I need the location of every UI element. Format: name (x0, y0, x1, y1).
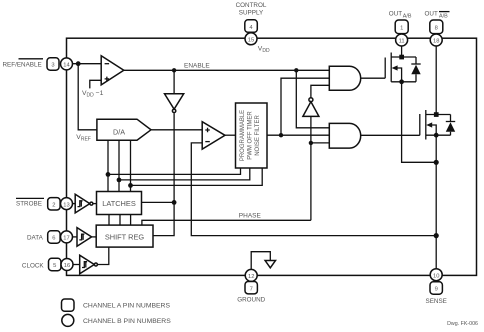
wire: D/A bit line 1 (107, 140, 109, 191)
pin 1 (square) OUT A/B (395, 20, 408, 34)
wire: PHASE inverter output up to AND A input (311, 85, 329, 97)
svg-text:SENSE: SENSE (426, 298, 447, 305)
svg-text:14: 14 (63, 63, 70, 69)
pin 8 (square) OUT A/B-bar (430, 20, 443, 34)
label CLOCK (22, 262, 44, 269)
block: LATCHES (97, 192, 142, 215)
wire: D/A output to comparator plus (151, 129, 202, 131)
svg-text:2: 2 (52, 203, 55, 209)
wire: ENABLE line from comparator to AND gate A (124, 69, 329, 71)
pin 9 (square) SENSE (430, 282, 442, 294)
node: junction PWM out to AND A (279, 133, 283, 137)
node: bus tap 3 (128, 183, 133, 188)
label CONTROL SUPPLY (236, 2, 267, 17)
op-amp U1 enable comparator (101, 56, 124, 85)
node: junction sense line (434, 233, 439, 238)
svg-text:1: 1 (400, 26, 403, 32)
pin 13 (round) STROBE (61, 198, 73, 210)
label VDD (258, 46, 270, 55)
svg-text:CHANNEL B PIN NUMBERS: CHANNEL B PIN NUMBERS (83, 318, 171, 325)
label OUT A/B-bar (425, 11, 450, 20)
svg-text:SHIFT REG: SHIFT REG (105, 233, 145, 242)
pin 11 (round) OUT A/B (396, 34, 408, 46)
wire: pin 18 down to Q2 drain (435, 46, 437, 114)
wire: bus line 3 to PWM block (131, 168, 263, 185)
svg-text:CLOCK: CLOCK (22, 262, 44, 269)
svg-text:11: 11 (399, 39, 405, 45)
node: junction PHASE to AND B input (309, 141, 313, 145)
diode D1 body diode of Q1 (411, 57, 420, 82)
pin 18 (round) OUT A/B-bar (430, 34, 442, 46)
transistor Q1 high-side DMOS for OUT A/B (385, 53, 416, 85)
svg-text:8: 8 (435, 26, 438, 32)
wire: PHASE to AND B lower input (311, 142, 329, 144)
svg-text:LATCHES: LATCHES (102, 199, 136, 208)
pin 17 (round) DATA (61, 231, 73, 243)
svg-text:PHASE: PHASE (239, 212, 262, 219)
legend: channel B pin marker (62, 314, 74, 326)
wire: PWM branch up to AND A middle input (281, 78, 329, 135)
svg-text:GROUND: GROUND (237, 296, 265, 303)
pin 3 (square, channel A) REF/ENABLE (47, 58, 59, 70)
svg-text:15: 15 (248, 38, 254, 44)
wire: pin 14 to comparator minus input (73, 63, 101, 65)
pin 15 (round) control supply (245, 33, 257, 45)
AND gate A (upper) (329, 66, 360, 90)
schmitt buffer clock (73, 247, 109, 274)
svg-text:CONTROL: CONTROL (236, 2, 267, 9)
wire: pin 11 down to Q1 drain (401, 46, 403, 57)
wire: ENABLE branch down to AND B input (296, 70, 329, 128)
wire: bus line 1 to PWM block (108, 168, 241, 174)
pin 3/14 REF/ENABLE label (3, 59, 44, 69)
wire: Q2 source down to sense pin (435, 135, 437, 268)
pin 12 (round) GROUND (245, 269, 257, 281)
pin 5 (square) CLOCK (49, 258, 61, 270)
pin 10 (round) SENSE (430, 269, 442, 281)
pin 6 (square) DATA (48, 231, 60, 243)
svg-text:13: 13 (63, 202, 69, 208)
pin 14 (round, channel B) REF/ENABLE (61, 58, 73, 70)
AND gate B (lower) (329, 123, 360, 148)
IC boundary outline (67, 38, 477, 275)
wire: comparator plus input stub (90, 80, 101, 88)
wire: PWM output to AND B middle input (267, 134, 329, 136)
svg-text:6: 6 (52, 236, 55, 242)
pin 16 (round) CLOCK (61, 259, 73, 271)
svg-text:A/B: A/B (403, 14, 412, 20)
wire: bus line 2 to PWM block (119, 168, 250, 180)
node: bus tap 2 (117, 178, 122, 183)
wire: comparator output to PWM block (225, 134, 236, 136)
wire: PHASE line from shift register (142, 220, 311, 225)
wire: VREF vertical to D/A (78, 64, 97, 130)
svg-text:NOISE FILTER: NOISE FILTER (255, 115, 261, 156)
svg-text:9: 9 (435, 287, 438, 293)
svg-text:CHANNEL A PIN NUMBERS: CHANNEL A PIN NUMBERS (83, 303, 170, 310)
wire: PHASE inverter input down to PHASE line (310, 116, 312, 220)
svg-text:10: 10 (433, 273, 439, 279)
label VREF (76, 134, 91, 143)
ground symbol (251, 252, 275, 270)
node: junction latch output (172, 200, 177, 205)
label DATA (27, 234, 44, 241)
diode D2 body diode of Q2 (446, 115, 455, 136)
svg-text:STROBE: STROBE (16, 201, 42, 208)
label VDD-1 (82, 90, 104, 99)
wire: inverter output down to latches line (173, 113, 175, 202)
svg-text:DATA: DATA (27, 234, 44, 241)
wire: LATCHES output to enable-bar column (142, 201, 175, 203)
svg-text:ENABLE: ENABLE (184, 62, 210, 69)
pin 4 (square) control supply (245, 20, 257, 33)
wire: D/A bit line 2 (118, 140, 120, 191)
schmitt buffer data (73, 228, 96, 247)
svg-text:7: 7 (250, 286, 253, 292)
svg-text:SUPPLY: SUPPLY (239, 10, 264, 17)
node: junction sources of Q1 and Q2 (434, 160, 439, 165)
legend: channel B text (83, 318, 171, 325)
wire: Q1 source down and over to sense column (402, 82, 437, 163)
drawing number (447, 321, 478, 327)
svg-text:17: 17 (63, 236, 69, 242)
svg-text:18: 18 (433, 39, 439, 45)
node: junction ENABLE to inverter (172, 68, 176, 72)
svg-text:PROGRAMMABLE: PROGRAMMABLE (240, 110, 246, 161)
wire: AND A output to Q1 gate (361, 77, 386, 79)
node: bus tap 1 (106, 172, 111, 177)
inverter: PHASE inverter (303, 98, 319, 117)
svg-text:PWM OFF TIMER: PWM OFF TIMER (248, 111, 254, 160)
block: PROGRAMMABLE PWM OFF-TIMER NOISE FILTER (236, 103, 268, 168)
node: junction at pin 14 / VREF branch (76, 61, 81, 66)
wire: D/A bit line 3 (130, 140, 132, 191)
legend: channel A text (83, 303, 170, 310)
comparator U2 current sense (202, 122, 225, 150)
wire: shift reg right edge up to latch line (153, 202, 174, 235)
label SENSE (426, 298, 447, 305)
wire: latch-shift connector 1 (108, 215, 110, 226)
block: D/A converter (97, 119, 151, 140)
node: junction ENABLE to AND gate B (294, 68, 298, 72)
svg-text:3: 3 (51, 63, 54, 69)
inverter: ENABLE-bar inverter (165, 70, 184, 112)
svg-text:12: 12 (248, 274, 254, 280)
label OUT A/B (389, 11, 412, 20)
svg-text:16: 16 (64, 263, 70, 269)
wire: latch-shift connector 2 (119, 215, 121, 226)
wire: AND B output to Q2 gate (361, 134, 420, 136)
pin 2 (square) STROBE (48, 198, 60, 210)
svg-text:A/B: A/B (439, 14, 448, 20)
wire: comparator minus to sense feedback line (191, 143, 436, 236)
transistor Q2 high-side DMOS for OUT A/B-bar (420, 110, 451, 140)
legend: channel A pin marker (62, 299, 75, 311)
svg-text:D/A: D/A (113, 128, 125, 137)
net label ENABLE (184, 62, 210, 69)
net label PHASE (239, 212, 262, 219)
label STROBE (16, 198, 44, 207)
pin 7 (square) GROUND (245, 282, 257, 294)
svg-text:OUT: OUT (389, 11, 402, 18)
svg-text:5: 5 (53, 263, 56, 269)
label GROUND (237, 296, 265, 303)
block: SHIFT REG (96, 225, 153, 247)
svg-text:Dwg. FK-006: Dwg. FK-006 (447, 321, 478, 327)
wire: latch-shift connector 3 (130, 215, 132, 226)
svg-text:OUT: OUT (425, 11, 438, 18)
svg-text:REF/ENABLE: REF/ENABLE (3, 61, 42, 68)
schmitt buffer strobe (73, 194, 97, 213)
